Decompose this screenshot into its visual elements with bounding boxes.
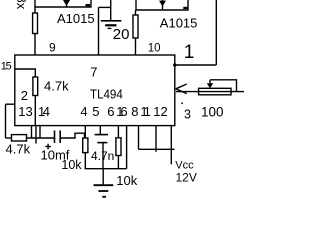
stray dot [181,103,183,105]
svg-text:TL494: TL494 [90,86,123,101]
wire R5 down to bottom edge [34,96,36,126]
wire pin 14 drop with stub [35,126,37,144]
wire Q1 to R1 [34,7,36,13]
wire pin 2 down [5,104,7,138]
wire pin 5 drop [99,126,101,134]
battery B1 plate short [105,24,116,26]
arrowhead pointing at U1 [176,84,187,89]
wire pin 2 tap [6,103,16,105]
wire pin 16 drop [117,126,119,138]
potentiometer VR1 body [199,88,231,95]
svg-text:13: 13 [18,104,32,119]
transistor Q1 A1015 (box cropped at top) [35,0,91,7]
svg-text:9: 9 [49,40,56,54]
op-amp U1 TL494 box [15,55,175,126]
wire link to pin 7 [99,6,111,8]
wire C2 to R3 with jog [60,133,84,138]
svg-text:A1015: A1015 [160,16,198,31]
ground bus [85,168,127,170]
transistor Q2 emitter arrow [162,0,164,10]
wire R1 to U1 pin 9 [34,34,36,56]
resistor R5 4.7k (inside U1) [33,77,38,96]
transistor Q1 inner tick [86,4,91,6]
wire Q2 to R2 [135,10,137,15]
wire drop x40 [39,126,41,138]
wire wiper loop [210,80,237,92]
svg-text:4: 4 [80,104,87,119]
wire pin 3 horizontal [176,91,244,93]
transistor Q1 emitter arrow [66,0,68,8]
wire to U1 right edge [175,64,217,66]
junction dot [173,63,176,66]
svg-text:6: 6 [107,104,114,119]
svg-text:10: 10 [148,42,161,54]
wire pin 4 drop [84,126,86,138]
svg-text:1: 1 [184,42,195,63]
battery minus mark [108,27,112,29]
wire pin 7 drop [98,7,100,55]
svg-text:10k: 10k [116,173,137,188]
svg-text:7: 7 [90,64,97,79]
svg-text:15: 15 [1,60,12,72]
wire pin 8 drop [126,126,128,169]
resistor R3 10k (vertical box) [83,138,88,153]
svg-text:2: 2 [21,88,28,103]
wire bus R6 to C2 [27,137,55,139]
wire top-right vertical [215,0,217,65]
capacitor C2 10mf plate right [59,131,61,144]
svg-text:10k: 10k [61,158,82,172]
transistor Q2 inner tick [183,7,188,9]
svg-text:20: 20 [113,26,130,43]
svg-text:5: 5 [92,104,99,119]
potentiometer wiper arrow [209,80,211,84]
rotated text 8x (cropped label, top-left) [14,0,29,10]
plus mark [45,144,50,149]
svg-text:12V: 12V [176,170,197,184]
svg-text:A1015: A1015 [57,11,95,26]
resistor R6 4.7k (horizontal box) [12,135,27,141]
resistor R4 10k (vertical box) [116,138,121,156]
wire pin 12 drop (pokes below bus) [155,126,157,152]
wire C3 to ground bus [102,143,104,169]
wire pin 13 drop [31,126,33,138]
wire Vcc stub [170,126,172,165]
capacitor C3 4.7n plate bottom [97,142,107,144]
wire battery top [110,0,112,20]
battery B1 plate long [101,20,122,22]
wire R4 to ground bus [117,156,119,169]
wire pin 11 drop [138,126,140,150]
svg-text:8x: 8x [14,0,29,10]
ground symbol [102,169,104,185]
wire pin 15 internal [16,69,36,77]
svg-text:12: 12 [153,104,167,119]
resistor R2 (vertical box) [133,15,138,38]
capacitor C3 4.7n plate top [95,134,108,136]
capacitor C2 10mf plate left [54,131,56,144]
svg-text:3: 3 [184,107,191,121]
svg-text:4.7k: 4.7k [6,141,31,156]
svg-text:100: 100 [201,104,224,119]
wire R2 to U1 pin 10 [135,38,137,55]
wire to R6 [6,137,12,139]
svg-text:4.7k: 4.7k [44,78,69,93]
svg-text:8: 8 [131,104,138,119]
Vcc bus [139,148,175,150]
svg-text:4.7n: 4.7n [91,149,114,163]
wire R3 to ground bus [84,153,86,169]
transistor Q2 A1015 (box cropped at top) [136,0,188,10]
resistor R1 (vertical box) [33,13,38,34]
